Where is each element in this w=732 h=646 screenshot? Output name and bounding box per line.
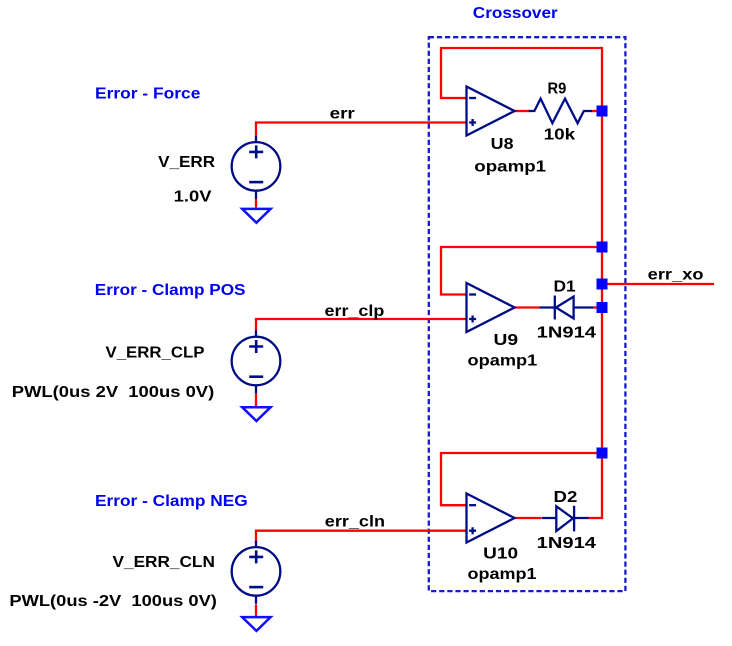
svg-text:R9: R9	[548, 81, 567, 98]
svg-text:err_clp: err_clp	[325, 303, 385, 320]
svg-text:V_ERR_CLN: V_ERR_CLN	[113, 554, 215, 571]
svg-text:Error - Clamp NEG: Error - Clamp NEG	[95, 493, 248, 510]
svg-text:Crossover: Crossover	[473, 5, 558, 22]
voltage source V_ERR	[232, 136, 281, 199]
svg-text:Error - Clamp POS: Error - Clamp POS	[95, 282, 246, 299]
svg-text:opamp1: opamp1	[468, 353, 538, 370]
svg-text:1N914: 1N914	[537, 324, 596, 341]
wire U10 feedback loop	[441, 453, 602, 505]
op-amp U10	[467, 494, 515, 543]
op-amp U9	[467, 283, 515, 332]
wire U8 output to R9	[515, 110, 531, 112]
wire D1 to bus	[593, 306, 603, 308]
svg-text:err: err	[330, 105, 355, 122]
svg-text:1N914: 1N914	[537, 535, 596, 552]
ground below V_ERR_CLN	[242, 617, 270, 631]
wire err_xo output	[602, 283, 714, 285]
ground below V_ERR_CLP	[242, 407, 270, 421]
ground below V_ERR	[242, 209, 270, 223]
node junction U9 feedback	[597, 242, 608, 253]
svg-text:D2: D2	[554, 489, 578, 506]
wire err (V_ERR to U8 +)	[255, 122, 467, 137]
svg-text:V_ERR_CLP: V_ERR_CLP	[106, 344, 205, 361]
wire V_ERR_CLN to ground	[255, 604, 257, 618]
wire vertical bus err_xo	[588, 47, 602, 518]
svg-text:D1: D1	[554, 279, 576, 296]
diode D2	[542, 506, 589, 532]
diode D1	[540, 296, 593, 320]
svg-text:err_cln: err_cln	[325, 514, 385, 531]
node junction err_xo tap	[597, 279, 608, 290]
wire R9 to bus	[591, 110, 602, 112]
svg-text:U10: U10	[483, 546, 518, 563]
svg-text:opamp1: opamp1	[474, 159, 546, 176]
wire U10 output to D2	[515, 517, 542, 519]
svg-text:err_xo: err_xo	[648, 266, 704, 283]
svg-text:V_ERR: V_ERR	[158, 154, 215, 171]
svg-text:Error - Force: Error - Force	[95, 85, 201, 102]
op-amp U8	[467, 87, 515, 136]
node junction D1 anode	[597, 302, 608, 313]
svg-text:PWL(0us 2V 100us 0V): PWL(0us 2V 100us 0V)	[12, 384, 214, 401]
svg-text:PWL(0us -2V 100us 0V): PWL(0us -2V 100us 0V)	[9, 593, 217, 610]
wire V_ERR_CLP to ground	[255, 394, 257, 409]
resistor R9	[529, 99, 592, 124]
voltage source V_ERR_CLP	[232, 331, 281, 394]
node junction U10 feedback	[597, 448, 608, 459]
svg-text:U9: U9	[494, 332, 519, 349]
svg-text:10k: 10k	[544, 126, 576, 143]
node junction R9 output	[597, 106, 608, 117]
crossover boundary dashed box	[429, 37, 626, 591]
svg-text:U8: U8	[491, 136, 514, 153]
svg-text:1.0V: 1.0V	[174, 189, 212, 206]
wire U8 feedback loop	[441, 48, 602, 98]
wire V_ERR to ground	[255, 199, 257, 210]
svg-text:opamp1: opamp1	[468, 566, 537, 583]
wire err_clp (V_ERR_CLP to U9 +)	[255, 318, 467, 331]
wire U9 feedback loop	[441, 247, 602, 295]
wire err_cln (V_ERR_CLN to U10 +)	[255, 530, 467, 544]
voltage source V_ERR_CLN	[232, 541, 281, 604]
wire U9 output to D1	[515, 306, 541, 308]
